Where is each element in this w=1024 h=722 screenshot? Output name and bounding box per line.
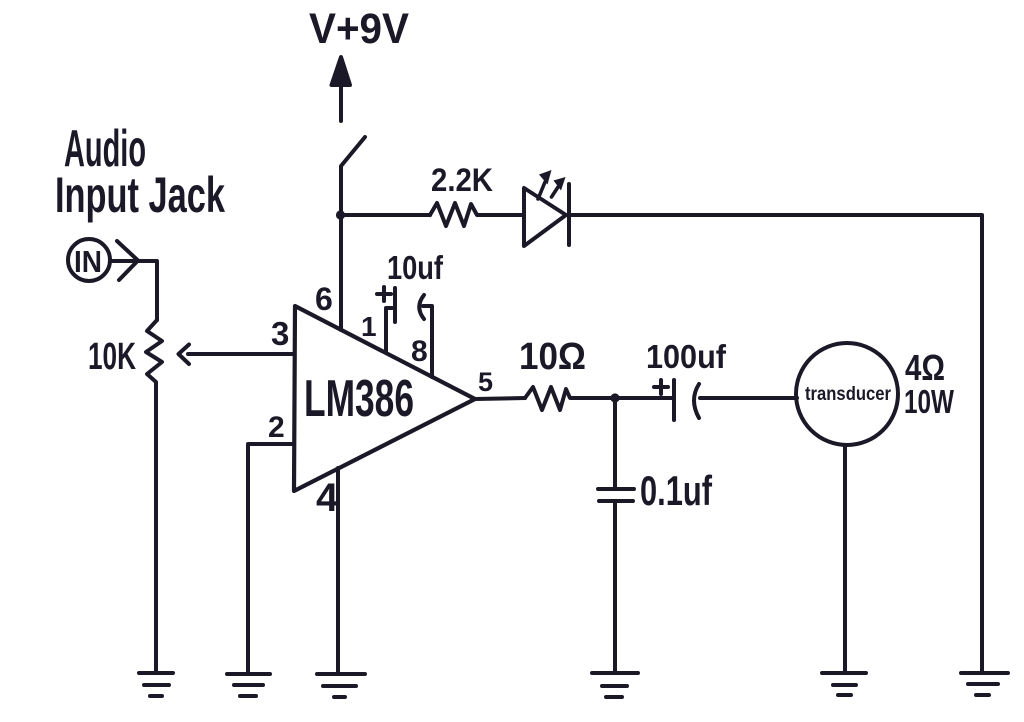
- svg-text:V+9V: V+9V: [309, 5, 409, 53]
- svg-text:transducer: transducer: [805, 384, 892, 405]
- svg-text:3: 3: [271, 315, 289, 352]
- svg-text:8: 8: [411, 335, 428, 368]
- svg-text:0.1uf: 0.1uf: [640, 467, 713, 514]
- svg-text:1: 1: [361, 311, 377, 342]
- svg-text:10K: 10K: [88, 336, 136, 378]
- svg-text:2: 2: [268, 411, 285, 444]
- svg-text:5: 5: [478, 367, 493, 397]
- svg-text:IN: IN: [74, 244, 102, 279]
- svg-text:100uf: 100uf: [646, 338, 727, 375]
- svg-text:Input Jack: Input Jack: [55, 167, 225, 223]
- svg-text:2.2K: 2.2K: [431, 162, 493, 198]
- svg-text:10uf: 10uf: [387, 249, 444, 286]
- svg-text:10Ω: 10Ω: [519, 336, 586, 378]
- svg-text:10W: 10W: [904, 383, 955, 420]
- svg-text:6: 6: [315, 281, 333, 317]
- svg-text:LM386: LM386: [304, 370, 414, 428]
- svg-text:4Ω: 4Ω: [905, 347, 945, 388]
- svg-text:4: 4: [316, 476, 339, 520]
